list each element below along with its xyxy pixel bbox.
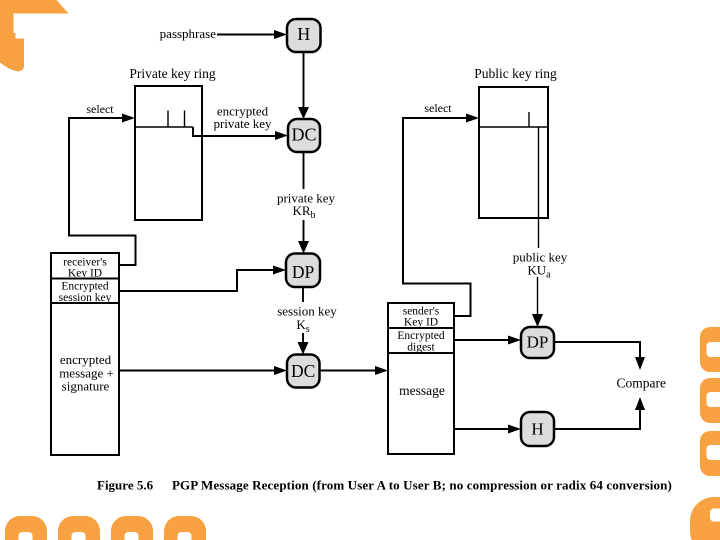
svg-text:H: H [297, 24, 310, 44]
svg-text:KRb: KRb [292, 203, 315, 221]
wire DP to compare [554, 342, 645, 370]
label Encrypted digest [397, 330, 445, 354]
label encrypted private key [213, 104, 272, 132]
wire encrypted digest to DP [454, 336, 521, 345]
wire session key to DP [120, 266, 287, 292]
private key ring tick 1 [167, 111, 169, 128]
wire encrypted message to DC [120, 366, 288, 375]
decoration: bottom arch 2 [58, 516, 100, 540]
label receiver's Key ID [63, 257, 107, 280]
wire DP to DC lower segment with arrow [298, 333, 309, 355]
divider session key / message [51, 302, 119, 304]
wire public key down from shelf [538, 127, 540, 248]
wire select left (receiver key ID to private key ring) [69, 114, 136, 266]
svg-text:DP: DP [292, 262, 315, 282]
decoration: bottom arch 1 [5, 516, 47, 540]
svg-text:Key ID: Key ID [68, 268, 102, 280]
box H (right) [521, 412, 554, 446]
svg-text:session key: session key [59, 292, 112, 304]
wire encrypted private key to DC [193, 127, 288, 140]
box private key ring [135, 86, 202, 220]
svg-text:Private key ring: Private key ring [129, 66, 215, 81]
decoration: bottom arch 3 [111, 516, 153, 540]
box H (hash function, top) [287, 19, 321, 52]
svg-text:DC: DC [291, 361, 315, 381]
wire passphrase to H [217, 30, 287, 39]
decoration: right sprocket 4 [690, 497, 720, 540]
box DP (left) [286, 254, 320, 288]
public key ring shelf line [480, 126, 547, 128]
divider receiver key id / session key [51, 278, 119, 280]
svg-text:session key: session key [277, 304, 337, 319]
svg-text:digest: digest [407, 342, 435, 354]
box sender message block [388, 303, 454, 454]
svg-text:select: select [424, 101, 452, 115]
label Encrypted session key [59, 281, 112, 305]
svg-text:Encrypted: Encrypted [61, 281, 109, 293]
svg-text:Encrypted: Encrypted [397, 330, 445, 342]
label private key KRb [277, 191, 336, 222]
label encrypted message + signature [59, 352, 114, 394]
svg-text:message: message [399, 383, 445, 398]
svg-text:DP: DP [527, 333, 549, 352]
svg-text:Figure 5.6PGP Message Receptio: Figure 5.6PGP Message Reception (from Us… [97, 478, 672, 493]
wire select right (sender key ID to public key ring) [403, 114, 479, 317]
wire H to DC [298, 52, 309, 119]
svg-text:select: select [86, 102, 114, 116]
box DC (lower) [287, 355, 320, 388]
divider digest / message [388, 352, 454, 354]
wire DC to DP lower segment with arrow [298, 220, 309, 254]
box DP (right) [521, 327, 554, 358]
label sender's Key ID [403, 306, 440, 329]
wire DC to DP upper segment [303, 152, 305, 189]
decoration: right sprocket 3 [700, 431, 720, 476]
svg-text:Ks: Ks [296, 317, 309, 335]
box DC (upper) [288, 119, 320, 152]
decoration: right sprocket 1 [700, 327, 720, 372]
decoration: orange corner bracket top-left [0, 0, 69, 72]
wire DC to sender message block [320, 366, 389, 375]
svg-text:H: H [531, 420, 543, 439]
svg-text:Compare: Compare [617, 376, 667, 391]
svg-text:Public key ring: Public key ring [474, 66, 557, 81]
wire message to H [454, 425, 521, 434]
svg-text:signature: signature [62, 379, 110, 394]
private key ring shelf line [136, 126, 193, 128]
wire public key to DP with arrow [532, 277, 543, 327]
wire DP to DC upper segment [302, 287, 304, 302]
decoration: right sprocket 2 [700, 378, 720, 423]
label public key KUa [513, 250, 568, 281]
svg-text:passphrase: passphrase [160, 26, 217, 41]
svg-text:private key: private key [213, 116, 272, 131]
box receiver message block [51, 253, 119, 455]
svg-text:DC: DC [291, 125, 316, 145]
wire H to compare [554, 397, 645, 429]
divider sender key id / digest [388, 327, 454, 329]
private key ring tick 2 [184, 111, 186, 128]
svg-text:Key ID: Key ID [404, 317, 438, 329]
box public key ring [479, 87, 548, 218]
svg-text:KUa: KUa [527, 263, 551, 281]
label session key Ks [277, 304, 337, 336]
public key ring tick [528, 112, 530, 127]
decoration: bottom arch 4 [164, 516, 206, 540]
